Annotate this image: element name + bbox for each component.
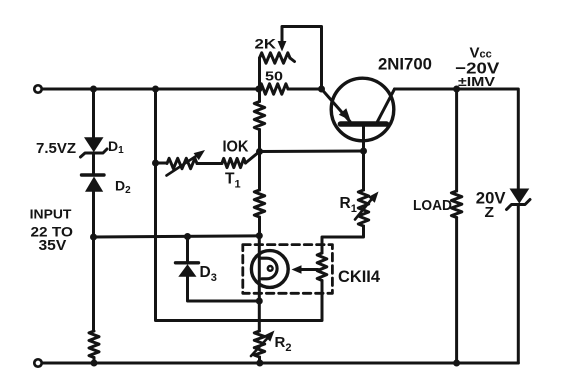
svg-text:INPUT: INPUT bbox=[30, 206, 72, 221]
svg-text:7.5VZ: 7.5VZ bbox=[36, 141, 76, 157]
svg-text:CKII4: CKII4 bbox=[338, 268, 381, 286]
svg-text:50: 50 bbox=[265, 69, 283, 84]
svg-text:35V: 35V bbox=[39, 237, 67, 254]
svg-text:Z: Z bbox=[485, 205, 495, 221]
svg-text:±IMV: ±IMV bbox=[458, 74, 495, 89]
svg-text:2NI700: 2NI700 bbox=[378, 55, 432, 74]
svg-text:IOK: IOK bbox=[223, 139, 249, 156]
svg-text:2K: 2K bbox=[255, 36, 277, 52]
svg-text:LOAD: LOAD bbox=[413, 198, 452, 214]
